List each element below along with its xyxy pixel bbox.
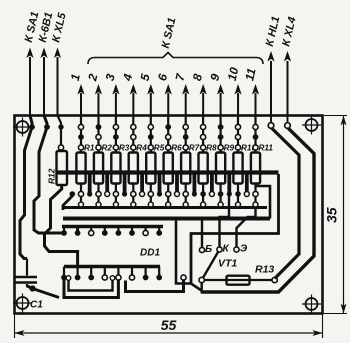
- wire R6 pad to bus: [167, 196, 169, 205]
- wire R4 pad to bus: [132, 196, 134, 205]
- wire: band to pad row junction: [158, 173, 162, 195]
- transistor VT1 base pad: [199, 219, 204, 253]
- svg-text:R8: R8: [206, 144, 217, 153]
- pad: R4 bottom lead: [131, 191, 136, 196]
- wire R2 pad to bus: [97, 196, 99, 205]
- pad: R6 bottom lead: [166, 191, 171, 196]
- DD1 bottom pin pad 3: [88, 267, 94, 281]
- wire: band to pad row junction: [175, 173, 179, 195]
- external lead arrow "К SA1": [23, 11, 42, 116]
- bus junction pad: [183, 202, 188, 207]
- trace L4: band right end descending around DD1 right side: [191, 174, 279, 284]
- bus junction pad: [79, 202, 84, 207]
- svg-text:R4: R4: [136, 144, 147, 153]
- junction pad (band feed): [87, 191, 92, 196]
- wire: band to pad row junction: [192, 173, 196, 195]
- junction pad (band feed): [244, 192, 249, 197]
- resistor R1: lead chain pads, body, bottom lead: [76, 116, 85, 195]
- bus junction pad: [96, 202, 101, 207]
- external lead arrow "8" (to SA1): [190, 72, 207, 115]
- DD1 bottom pin pad 8: [156, 267, 162, 281]
- pad: R9 bottom lead: [218, 191, 224, 197]
- DD1 top pin pad 1: [61, 227, 67, 236]
- dimension line "35": [341, 116, 347, 314]
- svg-text:R3: R3: [119, 144, 130, 153]
- bus junction pad: [131, 202, 136, 207]
- svg-text:VT1: VT1: [218, 258, 237, 270]
- board outline: [15, 116, 323, 314]
- external lead arrow "2" (to SA1): [85, 72, 102, 115]
- U-trace under DD1 (right): [126, 280, 184, 292]
- junction pad (band feed): [122, 191, 127, 196]
- svg-text:DD1: DD1: [140, 248, 160, 259]
- external lead arrow "1" (to SA1): [68, 72, 85, 115]
- svg-text:R6: R6: [171, 144, 182, 153]
- svg-text:R5: R5: [154, 144, 165, 153]
- wire: band to pad row junction: [227, 173, 231, 195]
- DD1 bottom pin pad 2: [75, 267, 81, 281]
- pad: R7 bottom lead: [183, 191, 188, 196]
- resistor R12 top pad: [58, 145, 63, 150]
- svg-text:35: 35: [324, 207, 340, 223]
- horizontal trace band behind resistor row: [57, 170, 279, 174]
- mounting hole top-left: [13, 118, 32, 137]
- svg-text:К: К: [223, 244, 230, 255]
- junction pad (band feed): [192, 191, 197, 196]
- DD1 bottom pin pad 7: [143, 267, 149, 281]
- short trace band below resistor row right end (C-link to bus B2): [256, 186, 271, 219]
- resistor R5: lead chain pads, body, bottom lead: [146, 116, 155, 195]
- resistor R3: lead chain pads, body, bottom lead: [111, 116, 120, 195]
- svg-text:R13: R13: [255, 264, 274, 276]
- svg-text:R11: R11: [259, 144, 274, 153]
- external lead arrow "4" (to SA1): [120, 72, 137, 115]
- resistor R13 leads and pads: [199, 277, 277, 282]
- external lead arrow "К XL4": [280, 16, 298, 116]
- trace T1 from "К SA1" lead down left side to C1: [20, 116, 35, 259]
- external lead arrow "7" (to SA1): [172, 71, 189, 115]
- resistor R10: lead chain pads, body, bottom lead: [233, 116, 242, 195]
- mounting hole bottom-left: [13, 294, 32, 313]
- external lead arrow "10" (to SA1): [225, 66, 242, 116]
- U-trace under DD1 (outer): [64, 280, 118, 298]
- wire: band to pad row junction: [88, 173, 92, 195]
- bus B3 (DD1 top): [62, 225, 163, 228]
- pad: R1 bottom lead: [78, 191, 83, 196]
- svg-text:R1: R1: [84, 144, 95, 153]
- DD1 top pin pad 5: [116, 227, 122, 236]
- pad: R10 bottom lead: [235, 191, 241, 197]
- transistor VT1 emitter pad and trace: [234, 208, 256, 252]
- external lead arrow "5" (to SA1): [138, 72, 155, 115]
- DD1 top pin pad 8: [156, 227, 162, 236]
- DD1 bottom bus: [64, 265, 160, 269]
- wire R9 pad to bus: [220, 196, 222, 205]
- mounting hole bottom-right: [302, 295, 321, 314]
- trace from R12 bottom to DD1 bottom bus: [45, 185, 78, 267]
- pad: R11 bottom lead: [253, 191, 258, 196]
- wire R1 pad to bus: [80, 196, 82, 205]
- junction pad (band feed): [140, 192, 145, 197]
- pad: R8 bottom lead: [200, 191, 206, 197]
- external lead arrow "К XL5": [50, 11, 69, 116]
- pad: R2 bottom lead: [96, 191, 101, 196]
- net label bracket "К SA1" spanning leads 1-11: [88, 17, 263, 64]
- DD1 bottom pin pad 4: [102, 267, 107, 281]
- DD1 bottom pin pad 5: [116, 267, 121, 281]
- wire R11 pad to bus: [254, 196, 256, 205]
- external lead arrow "6" (to SA1): [155, 72, 172, 115]
- resistor R7: lead chain pads, body, bottom lead: [181, 116, 190, 195]
- junction pad (band feed): [209, 192, 214, 197]
- bus junction pad: [236, 202, 241, 207]
- mounting hole top-right: [302, 116, 321, 135]
- trace T2 from "К-6В1" lead down to DD1 pad: [34, 116, 64, 234]
- resistor R9: lead chain pads, body, bottom lead: [216, 116, 225, 195]
- external lead arrow "9" (to SA1): [207, 72, 224, 115]
- svg-text:C1: C1: [30, 300, 43, 311]
- wire: band to pad row junction: [123, 173, 127, 195]
- bottom bus VT1/R13 area: [202, 291, 250, 294]
- resistor R2: lead chain pads, body, bottom lead: [94, 116, 103, 195]
- resistor R8: lead chain pads, body, bottom lead: [199, 116, 208, 195]
- trace from "К XL5" lead to R12: [58, 116, 64, 148]
- svg-text:R7: R7: [189, 144, 200, 153]
- DD1 top pin pad 3: [89, 227, 94, 236]
- bus junction pad: [253, 202, 258, 207]
- capacitor C1 bottom lead and pad: [27, 284, 59, 298]
- trace from "К HL1" pad down right side to R13: [268, 116, 299, 279]
- wire: band to pad row junction: [210, 173, 214, 195]
- wire: band to pad row junction: [245, 173, 249, 195]
- pad: R5 bottom lead: [148, 191, 153, 196]
- dimension extension lines: [15, 116, 348, 339]
- wire R8 pad to bus: [202, 196, 204, 205]
- wire: band to pad row junction: [140, 173, 144, 195]
- trace from "К XL4" pad around board edge to bottom bus: [202, 116, 314, 293]
- DD1 bottom pin pad 1: [61, 267, 67, 281]
- wire R5 pad to bus: [150, 196, 152, 205]
- transistor VT1 collector pad and traces: [202, 196, 229, 280]
- external lead arrow "11" (to SA1): [242, 67, 259, 116]
- junction pad (band feed): [157, 191, 162, 196]
- DD1 top pin pad 6: [129, 227, 135, 236]
- DD1 top pin pad 4: [102, 227, 108, 236]
- bus junction pad: [148, 202, 153, 207]
- wire R7 pad to bus: [185, 196, 187, 205]
- junction pad (band feed): [175, 192, 180, 197]
- svg-text:Б: Б: [205, 244, 212, 255]
- svg-text:R2: R2: [102, 144, 113, 153]
- bus junction pad: [201, 202, 206, 207]
- svg-text:R9: R9: [224, 144, 235, 153]
- svg-text:R12: R12: [47, 168, 57, 184]
- standalone pad right of DD1 bottom row: [181, 275, 186, 280]
- wire: band to pad row junction: [105, 173, 109, 195]
- junction pad (band feed): [105, 192, 110, 197]
- bus B2: [63, 217, 270, 221]
- bus junction pad: [166, 202, 171, 207]
- wire R10 pad to bus: [237, 196, 239, 205]
- DD1 bottom pin pad 6: [129, 267, 134, 281]
- junction pad (band feed): [227, 191, 232, 196]
- U-trace under DD1 (inner): [66, 276, 115, 291]
- bus B1: [63, 206, 267, 209]
- bus junction pad: [113, 202, 118, 207]
- svg-text:55: 55: [161, 317, 177, 333]
- resistor R11: lead chain pads, body, bottom lead: [251, 116, 260, 195]
- resistor R4: lead chain pads, body, bottom lead: [129, 116, 138, 195]
- resistor R6: lead chain pads, body, bottom lead: [164, 116, 173, 195]
- long return trace to bottom bus: [176, 219, 202, 291]
- wire R3 pad to bus: [115, 196, 117, 205]
- external lead arrow "3" (to SA1): [103, 72, 120, 115]
- trace from R13 left pad to bottom bus: [200, 282, 202, 294]
- svg-text:Э: Э: [240, 244, 248, 255]
- dimension line "55": [15, 330, 323, 336]
- DD1 top pin pad 2: [75, 227, 81, 236]
- wire: junction to bus B1 left end: [63, 191, 75, 210]
- capacitor C1 top lead: [26, 259, 28, 276]
- DD1 top pin pad 7: [143, 227, 148, 236]
- external lead arrow "К HL1": [264, 15, 283, 115]
- resistor R12 body: [57, 151, 68, 185]
- resistor R13 body: [227, 276, 250, 285]
- external lead arrow "К-6В1": [37, 11, 56, 115]
- pad: R3 bottom lead: [113, 191, 118, 196]
- capacitor C1 plates: [16, 277, 38, 283]
- bus junction pad: [218, 202, 223, 207]
